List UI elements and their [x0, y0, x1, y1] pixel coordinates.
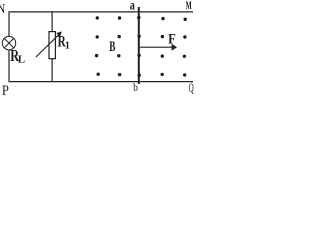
- svg-text:1: 1: [65, 40, 70, 51]
- svg-text:a: a: [130, 0, 135, 13]
- field dots column 1: [95, 16, 100, 76]
- wire left branch upper (N to lamp): [8, 12, 10, 37]
- wire bottom rail P-Q: [9, 81, 194, 83]
- svg-text:B: B: [109, 38, 115, 55]
- svg-text:b: b: [133, 81, 138, 94]
- rheostat arrow through R1: [36, 32, 62, 58]
- svg-text:F: F: [168, 30, 176, 46]
- resistor R1 body: [49, 32, 55, 59]
- svg-text:M: M: [186, 0, 192, 13]
- force arrow F: [140, 44, 177, 51]
- field dots column 2: [117, 16, 121, 76]
- svg-text:P: P: [2, 82, 9, 98]
- lamp RL circle: [2, 36, 15, 49]
- lamp RL cross: [4, 38, 13, 47]
- field dots column 3 (on rod): [137, 16, 141, 77]
- svg-text:Q: Q: [189, 82, 195, 96]
- svg-text:N: N: [0, 1, 5, 16]
- rod ab: [138, 7, 140, 84]
- wire left branch lower (lamp to P): [8, 50, 10, 82]
- field dots column 5: [183, 18, 187, 77]
- wire middle branch upper (rail to R1): [51, 12, 53, 32]
- wire top rail N-M: [9, 11, 194, 13]
- svg-text:L: L: [18, 54, 25, 66]
- field dots column 4: [161, 17, 165, 76]
- wire middle branch lower (R1 to rail): [51, 59, 53, 82]
